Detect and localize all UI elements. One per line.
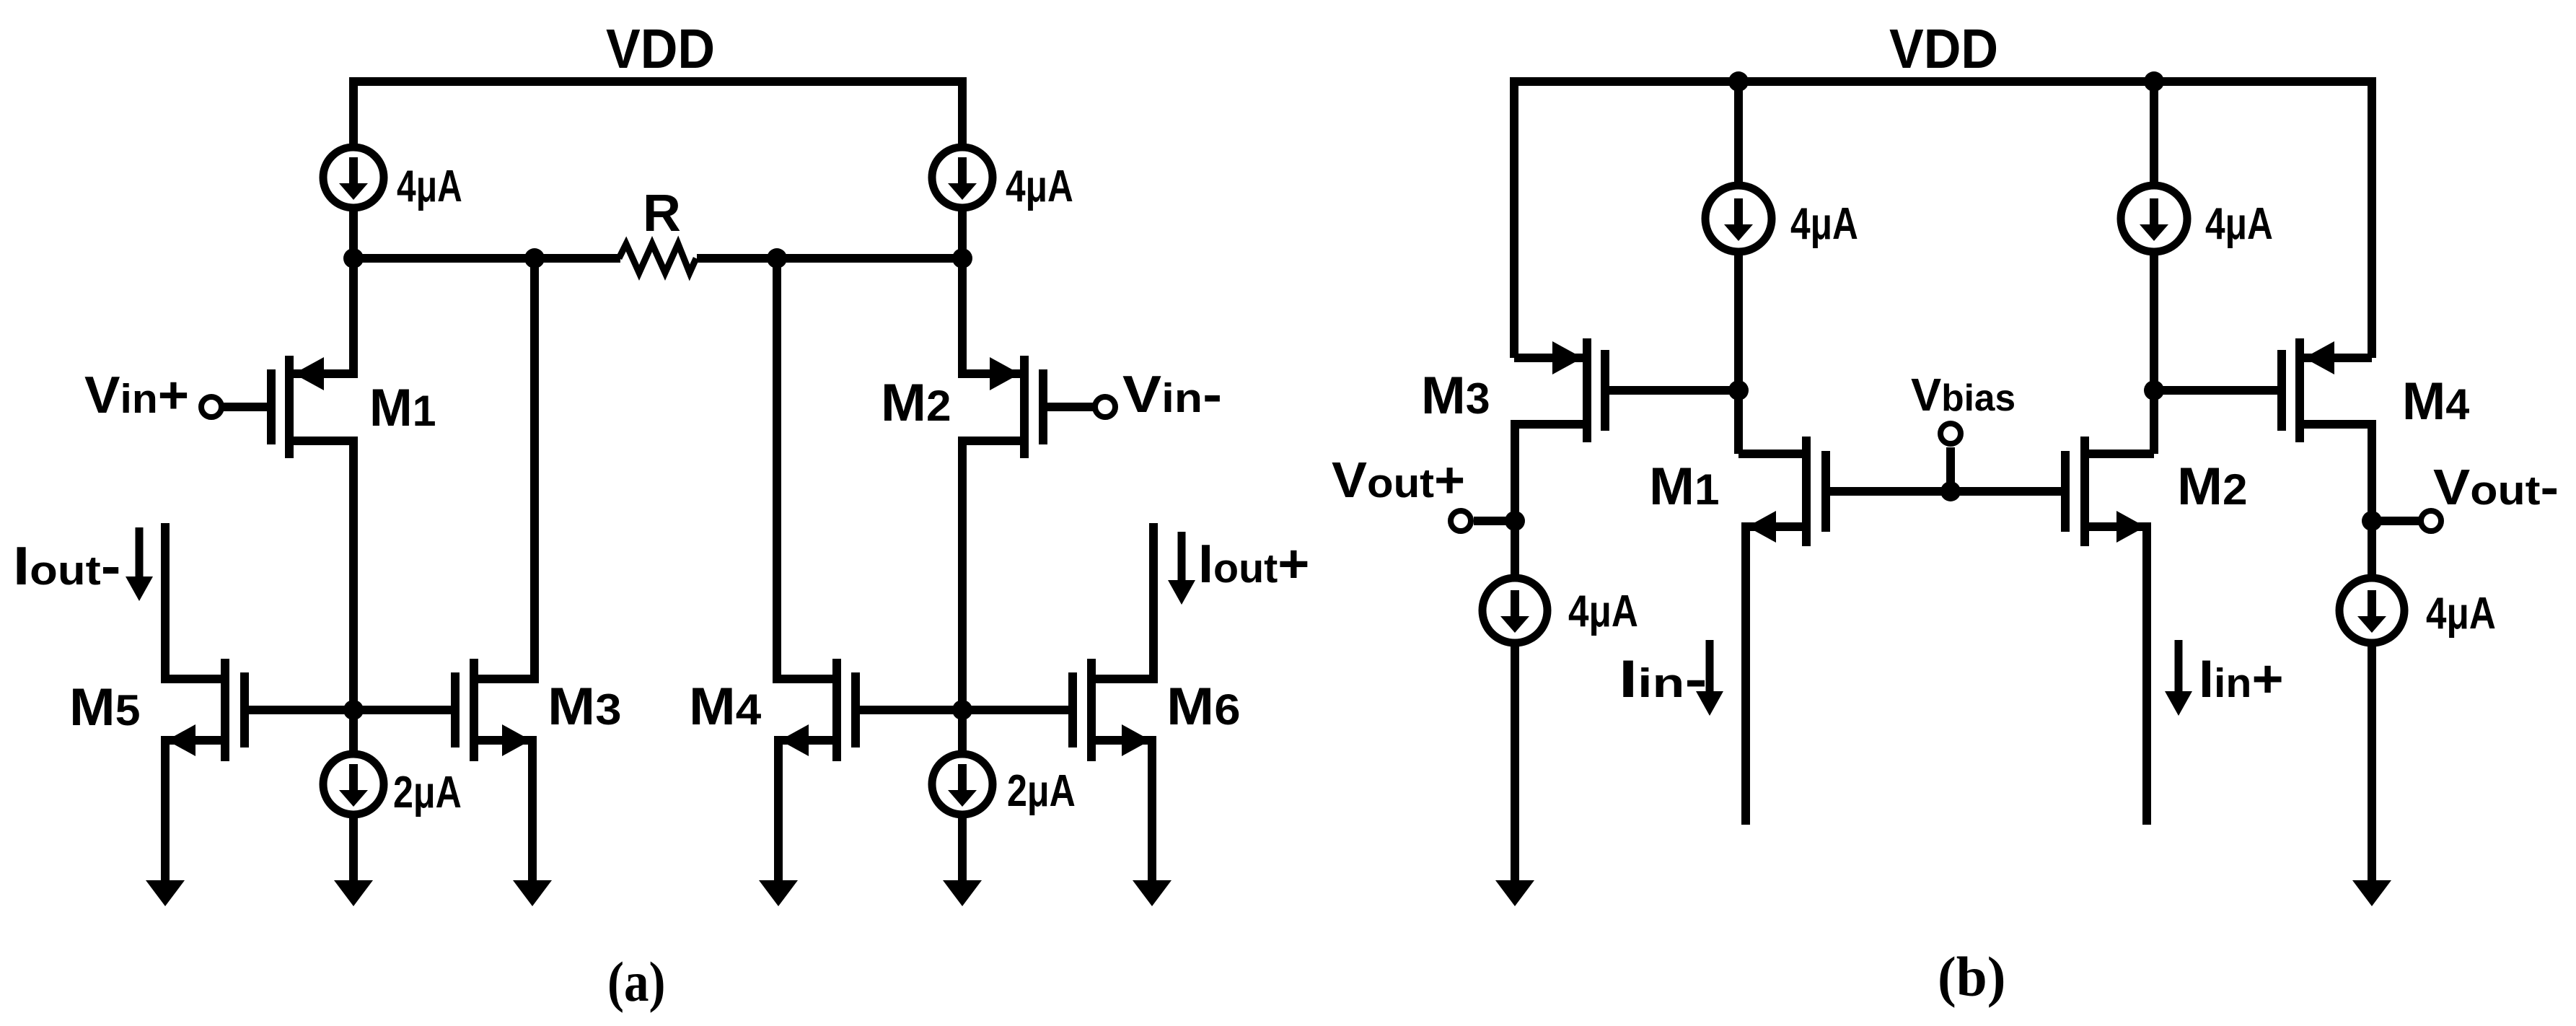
svg-text:M4: M4 <box>2402 372 2469 431</box>
svg-text:M2: M2 <box>2177 457 2248 516</box>
svg-text:M2: M2 <box>881 373 951 432</box>
svg-text:4μA: 4μA <box>1006 161 1073 211</box>
svg-text:(b): (b) <box>1938 946 2005 1008</box>
svg-text:2μA: 2μA <box>393 767 462 817</box>
svg-text:Vbias: Vbias <box>1911 369 2015 421</box>
svg-text:R: R <box>643 185 681 242</box>
svg-text:VDD: VDD <box>606 18 715 80</box>
svg-text:M6: M6 <box>1166 678 1241 736</box>
svg-text:4μA: 4μA <box>397 161 462 211</box>
svg-text:VDD: VDD <box>1889 18 1998 80</box>
svg-text:2μA: 2μA <box>1007 766 1076 815</box>
svg-text:4μA: 4μA <box>1568 587 1638 636</box>
svg-text:4μA: 4μA <box>2426 589 2496 639</box>
svg-text:Vin-: Vin- <box>1122 366 1222 424</box>
svg-text:M4: M4 <box>689 677 762 735</box>
svg-text:Vout+: Vout+ <box>1332 452 1465 509</box>
svg-text:M5: M5 <box>69 678 141 737</box>
svg-text:M1: M1 <box>369 379 436 437</box>
svg-text:M3: M3 <box>1421 366 1490 425</box>
svg-text:4μA: 4μA <box>1790 198 1858 249</box>
svg-text:M1: M1 <box>1649 457 1720 516</box>
svg-text:4μA: 4μA <box>2205 198 2273 249</box>
svg-text:M3: M3 <box>548 678 622 736</box>
svg-text:(a): (a) <box>607 950 666 1013</box>
svg-text:Vout-: Vout- <box>2433 458 2559 515</box>
